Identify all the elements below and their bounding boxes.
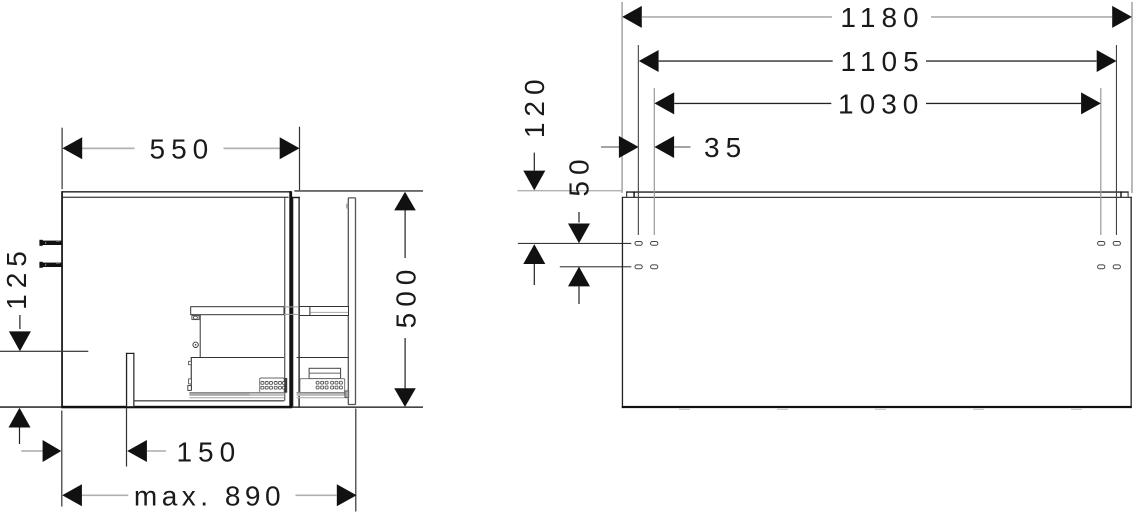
arrow left	[639, 50, 659, 72]
tail below	[578, 286, 579, 304]
dim line	[534, 153, 535, 171]
tail below	[534, 264, 535, 285]
svg-text:500: 500	[391, 264, 422, 329]
slide rail grey (inside carcass)	[189, 392, 284, 398]
drawer screw circle	[193, 342, 198, 347]
carcass top outer line	[62, 191, 291, 192]
mounting slots	[635, 242, 1120, 269]
top strip (console plate)	[626, 191, 1128, 197]
gap small box	[309, 368, 341, 378]
arrow down	[523, 171, 545, 191]
gap perforated block	[300, 379, 345, 393]
svg-text:1105: 1105	[840, 46, 924, 77]
top bar left end bracket	[192, 316, 199, 320]
arrow right	[280, 137, 300, 159]
bracket line left of tall panel	[346, 204, 348, 209]
arrow up	[9, 408, 31, 428]
carcass inner right line	[284, 197, 285, 401]
svg-text:1180: 1180	[840, 2, 924, 33]
svg-text:max. 890: max. 890	[134, 481, 285, 512]
arrow pointing right	[619, 136, 639, 158]
arrow pointing right	[43, 440, 62, 462]
tail below arrow	[19, 428, 20, 445]
ext line bottom	[292, 406, 423, 408]
grey line left	[82, 495, 128, 497]
svg-text:550: 550	[150, 134, 215, 165]
arrow up	[523, 244, 545, 264]
ext line left grey	[654, 88, 655, 235]
dim line segments	[659, 60, 833, 61]
svg-text:50: 50	[564, 153, 595, 196]
hole leader line row1	[518, 243, 631, 244]
arrow down	[9, 331, 31, 351]
grey line right	[296, 495, 337, 497]
dim line grey segments	[642, 16, 832, 18]
top bar grey continuation through wall	[284, 306, 299, 315]
drawer front panel (edge-on)	[292, 197, 300, 408]
drawer bracket vertical line	[200, 315, 201, 358]
dim line	[578, 212, 579, 223]
drawer box divider line in gap	[297, 357, 349, 358]
tall side panel (right of side view)	[348, 198, 355, 405]
dim line above arrow	[19, 315, 20, 329]
grey tail left	[601, 146, 620, 147]
carcass right edge (thick)	[289, 191, 292, 407]
dim line grey segments	[82, 148, 135, 150]
arrow left	[654, 92, 674, 114]
svg-text:120: 120	[519, 73, 550, 138]
perforated block (inside carcass)	[260, 378, 288, 393]
arrow down	[568, 224, 590, 244]
ext line top	[294, 190, 423, 192]
arrow up	[394, 192, 416, 211]
arrow down	[394, 388, 416, 407]
feet marks under bottom edge	[679, 409, 1082, 410]
dim line segments	[674, 103, 831, 104]
grey top reference line	[518, 190, 622, 191]
ext line left	[62, 128, 63, 190]
arrow pointing left	[127, 440, 147, 462]
carcass inner bottom line	[134, 400, 285, 401]
arrow left	[62, 484, 82, 506]
carcass left edge	[61, 191, 63, 407]
arrow right	[337, 484, 357, 506]
ext line right	[1116, 45, 1117, 235]
carcass bottom (thick)	[61, 406, 292, 409]
ext line right grey	[1131, 2, 1133, 193]
bottom line extended to left wall	[0, 406, 61, 408]
arrow up	[568, 267, 590, 287]
ext line left	[638, 45, 639, 235]
svg-text:125: 125	[1, 245, 32, 310]
reference line	[0, 351, 88, 352]
drawer slide top bar (inside carcass)	[191, 307, 284, 315]
ext line left grey	[621, 2, 623, 193]
carcass inner top line	[63, 197, 289, 198]
arrow left	[62, 137, 82, 159]
arrow left	[622, 6, 642, 28]
dim line segments	[405, 210, 406, 258]
grey tail right	[674, 146, 690, 147]
ext line (siphon panel extended)	[126, 408, 127, 466]
svg-text:35: 35	[704, 132, 747, 163]
svg-text:150: 150	[176, 436, 241, 467]
grey tail left	[21, 450, 42, 452]
wall screw bottom	[39, 262, 62, 268]
ext line right	[299, 127, 300, 191]
arrow pointing left	[654, 136, 674, 158]
drawer left tabs	[188, 361, 192, 390]
siphon cutout panel	[126, 353, 135, 406]
wall screw top	[39, 240, 62, 246]
arrow right	[1081, 92, 1101, 114]
arrow right	[1112, 6, 1132, 28]
body outline	[622, 197, 1132, 408]
svg-text:1030: 1030	[838, 89, 924, 120]
hole leader line row2	[560, 266, 632, 267]
gap rail bracket (between carcass and tall panel)	[299, 307, 348, 316]
drawer box divider line	[191, 357, 284, 358]
ext line right grey	[1100, 88, 1101, 235]
arrow right	[1097, 50, 1117, 72]
grey tail right	[147, 450, 166, 452]
ext line right	[355, 409, 356, 512]
drawer lower body left edge	[191, 358, 192, 390]
ext line left	[61, 411, 62, 507]
gap slide rail grey	[297, 391, 349, 398]
